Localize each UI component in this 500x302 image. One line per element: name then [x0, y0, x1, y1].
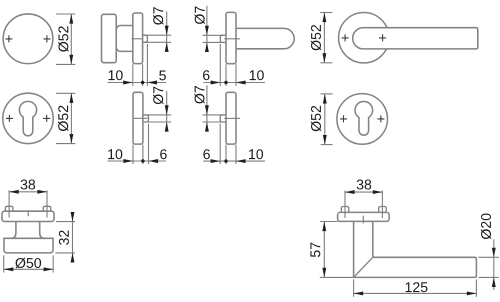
dimension 38 line: [9, 191, 47, 193]
dimension Ø52 extension line bottom: [321, 144, 333, 146]
screw stud left: [341, 207, 349, 213]
dimension 125 extension line right: [475, 279, 477, 296]
dimension Ø52 line: [70, 93, 72, 143]
rose outline circle: [339, 13, 389, 63]
dimension Ø7 extension lines: [144, 35, 171, 42]
dimension 32 line: [72, 214, 74, 262]
extension line below stub end: [146, 44, 148, 86]
dimension Ø7 arrow bottom: [165, 122, 169, 132]
dimension 38 arrow left: [345, 190, 355, 194]
dimension 5 label: [159, 71, 166, 81]
rose outline circle: [3, 14, 53, 64]
extension line below plate left: [225, 145, 227, 165]
extension line below plate right: [142, 64, 144, 86]
extension line below plate right: [142, 145, 144, 165]
dimension Ø7 arrow top: [165, 26, 169, 36]
extension line below plate right: [235, 64, 237, 86]
dimension Ø52 extension line top: [56, 92, 75, 94]
dimension Ø52 extension line bottom: [320, 62, 332, 64]
screw stud right: [43, 206, 51, 211]
dimension Ø52 label: [311, 25, 321, 50]
dimension Ø20 extension line top: [479, 256, 499, 258]
dimension 57 arrow top: [322, 222, 326, 232]
dimension 125 arrow left: [354, 291, 364, 295]
dimension Ø50 arrow right: [44, 267, 54, 271]
dimension Ø52 label: [58, 106, 68, 131]
dimension 57 extension line bottom: [320, 276, 354, 278]
dimension Ø52 line: [324, 94, 326, 145]
extension line below plate left: [132, 64, 134, 86]
dimension Ø52 extension line top: [321, 93, 333, 95]
dimension 57 extension line top: [320, 221, 338, 223]
dimension Ø20 arrow bottom (outside, pointing up): [492, 277, 496, 287]
screw cross right: [43, 35, 50, 42]
cylinder stub: [143, 115, 149, 122]
screw stud right: [379, 207, 387, 213]
dimension 38 line: [345, 191, 382, 193]
dimension Ø7 label: [194, 86, 204, 104]
dimension Ø52 arrow bottom: [69, 55, 73, 65]
dimension Ø7 line: [206, 6, 208, 52]
dimension 10/6 line: [108, 160, 167, 162]
plate centre tick: [362, 216, 364, 224]
dimension 6/10 line: [203, 160, 265, 162]
spindle stub: [143, 35, 148, 42]
dimension Ø52 arrow top: [69, 93, 73, 103]
dimension Ø50 line: [4, 268, 54, 270]
extension line below stub end: [219, 44, 221, 86]
extension line below plate left: [225, 64, 227, 86]
knob neck left side: [11, 222, 16, 239]
dimension 38 extension line left through stud: [344, 191, 346, 218]
dimension Ø52 arrow bottom: [323, 135, 327, 145]
screw cross left: [6, 115, 13, 122]
escutcheon plate side view: [226, 92, 236, 144]
knob neck right side: [40, 222, 45, 239]
shared dimension dot: [141, 81, 144, 84]
dimension Ø7 arrow bottom: [205, 42, 209, 52]
dimension 57 arrow bottom: [322, 268, 326, 278]
dimension 10 arrow: [123, 81, 133, 85]
dimension 38 extension line right through stud: [46, 190, 48, 217]
knob base: [4, 238, 53, 253]
dimension Ø52 line: [323, 13, 325, 63]
centre line through stub: [131, 38, 142, 40]
dimension Ø52 extension line top: [56, 13, 75, 15]
knob head profile: [102, 14, 117, 62]
dimension 10 arrow: [236, 159, 246, 163]
dimension 125 label: [406, 282, 428, 292]
dimension Ø52 arrow top: [69, 14, 73, 24]
dimension 125 extension line left: [353, 279, 355, 296]
dimension 10 label: [109, 70, 123, 80]
dimension 125 line: [354, 292, 477, 294]
dimension Ø20 label: [481, 214, 491, 240]
screw cross left: [340, 115, 347, 122]
dimension 32 arrow top (outside, pointing down): [71, 212, 75, 222]
dimension 10 label: [108, 149, 122, 159]
lever bar over rose: [353, 28, 478, 49]
escutcheon plate side view: [133, 92, 143, 144]
dimension Ø50 extension line left: [3, 255, 5, 272]
dimension Ø7 line: [166, 91, 168, 131]
dimension Ø52 extension line top: [320, 12, 332, 14]
dimension Ø52 label: [311, 106, 321, 131]
screw stud left: [5, 206, 12, 211]
mounting plate: [338, 212, 390, 221]
dimension Ø7 arrow bottom: [205, 122, 209, 132]
screw cross left: [342, 34, 349, 41]
extension line below stub end: [219, 124, 221, 165]
dimension 10 arrow: [123, 159, 133, 163]
dimension Ø50 extension line right: [52, 255, 54, 272]
screw cross right: [43, 115, 50, 122]
dimension 32 arrow bottom (outside, pointing up): [71, 253, 75, 263]
escutcheon outline circle: [337, 94, 388, 145]
shared dimension dot: [224, 81, 227, 84]
dimension Ø7 arrow bottom: [165, 42, 169, 52]
dimension Ø52 arrow bottom: [69, 134, 73, 144]
screw cross right: [377, 115, 384, 122]
dimension 6 label: [203, 149, 210, 159]
rose plate side view: [226, 12, 236, 63]
dimension Ø7 label: [153, 87, 163, 105]
dimension Ø7 arrow top: [205, 26, 209, 36]
dimension 32 extension line top: [56, 221, 75, 223]
lever elbow mitre line: [354, 257, 373, 277]
extension line below plate left: [132, 145, 134, 165]
dimension Ø52 extension line bottom: [56, 143, 75, 145]
dimension Ø7 arrow top: [165, 105, 169, 115]
dimension 38 arrow right: [37, 190, 47, 194]
dimension 5 arrow: [147, 81, 157, 85]
dimension Ø20 extension line bottom: [479, 276, 499, 278]
dimension 6 arrow: [211, 159, 221, 163]
rose plate side view: [133, 13, 143, 64]
dimension 6 label: [203, 70, 210, 80]
dimension Ø52 label: [58, 26, 68, 51]
dimension 10 label: [249, 149, 263, 159]
dimension 38 label: [357, 180, 372, 190]
centre line through stub: [224, 117, 240, 119]
dimension Ø52 line: [70, 14, 72, 64]
dimension 6 arrow: [149, 159, 159, 163]
dimension Ø7 arrow top: [205, 105, 209, 115]
knob neck bottom line: [116, 47, 133, 51]
dimension 38 arrow left: [9, 190, 19, 194]
dimension Ø50 arrow left: [4, 267, 14, 271]
dimension 6 label: [160, 149, 167, 159]
mounting plate: [2, 211, 54, 221]
extension line below plate right: [235, 145, 237, 165]
dimension Ø7 line: [206, 85, 208, 131]
knob neck top line: [116, 26, 133, 30]
dimension Ø52 extension line bottom: [56, 63, 75, 65]
dimension Ø52 arrow top: [322, 13, 326, 23]
dimension 10 label: [250, 70, 264, 80]
dimension Ø7 extension lines: [203, 35, 224, 42]
dimension Ø52 arrow bottom: [322, 53, 326, 63]
dimension 10 arrow: [236, 81, 246, 85]
dimension Ø20 line: [493, 240, 495, 290]
dimension Ø7 extension lines: [144, 115, 171, 122]
dimension 10/5 line: [108, 82, 167, 84]
dimension 57 label: [310, 243, 320, 257]
dimension Ø50 label: [15, 258, 41, 268]
centre line through stub: [224, 38, 240, 40]
dimension Ø20 arrow top (outside, pointing down): [492, 248, 496, 258]
dimension 38 extension line right through stud: [381, 191, 383, 218]
screw cross left: [5, 35, 12, 42]
dimension Ø7 extension lines: [203, 115, 224, 122]
dimension 32 extension line bottom: [56, 252, 76, 254]
dimension 32 label: [59, 231, 69, 245]
dimension Ø7 line: [166, 12, 168, 52]
dimension Ø7 label: [153, 7, 163, 25]
screw cross right: [379, 34, 386, 41]
extension line below stub end: [148, 124, 150, 165]
dimension Ø7 label: [195, 6, 205, 24]
dimension 6 arrow: [211, 81, 221, 85]
centre line through stub: [134, 117, 148, 119]
spindle stub: [220, 35, 226, 42]
plate centre tick: [27, 210, 29, 216]
escutcheon outline circle: [3, 93, 53, 143]
dimension 38 extension line left through stud: [8, 190, 10, 217]
lever grip side view: [236, 28, 294, 48]
shared dimension dot: [224, 159, 227, 162]
lever neck and grip outline: [354, 221, 477, 277]
dimension 57 line: [323, 222, 325, 278]
dimension 38 label: [21, 180, 36, 190]
euro profile keyhole: [355, 101, 373, 135]
dimension 38 arrow right: [373, 190, 383, 194]
cylinder stub: [220, 115, 226, 122]
dimension Ø52 arrow top: [323, 94, 327, 104]
shared dimension dot: [141, 159, 144, 162]
dimension 125 arrow right: [467, 291, 477, 295]
dimension 6/10 line: [203, 82, 265, 84]
euro profile keyhole: [19, 101, 36, 135]
